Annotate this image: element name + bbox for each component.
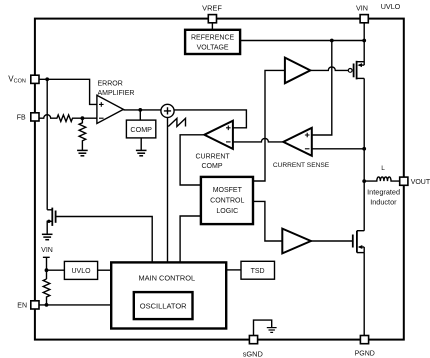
wire current comp output to mosfet control logic [180,135,204,185]
wire VREF stub to reference box [211,22,213,30]
transistor pmos high side [348,41,364,80]
resistor EN pull [43,279,50,305]
wire FB line with hop and series resistor [39,115,97,122]
uvlo box [64,261,97,279]
svg-text:TSD: TSD [251,268,265,275]
wire comp box to ground [140,138,142,151]
svg-text:sGND: sGND [243,349,263,358]
wire nmos source to pgnd [363,253,365,336]
wire VCON down to discharge fet [46,79,48,210]
wire uvlo box to main control [98,269,112,271]
svg-text:UVLO: UVLO [71,268,91,275]
svg-text:ERROR: ERROR [98,80,123,87]
svg-text:VIN: VIN [41,247,53,254]
node VIN rail junction [362,39,366,43]
oscillator box [134,292,193,319]
buffer upper gate driver [285,58,310,84]
svg-text:REFERENCE: REFERENCE [191,35,235,42]
svg-text:MAIN CONTROL: MAIN CONTROL [138,273,195,282]
wire sgnd to ground symbol [254,320,272,335]
wire discharge fet gate to main control [56,217,153,263]
svg-text:MOSFET: MOSFET [213,187,243,194]
comp box C1 [126,120,155,138]
node FB divider junction [81,116,85,120]
wire uvlo junction to uvlo box [47,269,65,271]
svg-text:Inductor: Inductor [370,197,397,206]
wire main control to tsd [226,269,241,271]
inductor L coil [364,177,400,181]
wire VCON to error amp plus [39,79,97,104]
wire current sense plus drop [312,41,332,136]
ground discharge fet [42,234,53,239]
tsd box [241,261,275,279]
wire summing output to current comp plus [174,110,246,128]
node uvlo junction [45,268,49,272]
resistor FB divider lower [79,118,86,150]
svg-text:COMP: COMP [130,125,152,134]
wire current sense minus to switch node [312,148,364,150]
node current sense supply tap [330,39,334,43]
svg-text:OSCILLATOR: OSCILLATOR [140,302,187,311]
op-amp error amplifier [97,95,124,123]
mosfet control logic box [201,177,253,224]
wire upper driver to pmos gate with hop [310,67,348,71]
transistor nmos low side [353,231,364,253]
supply stub VIN internal [43,257,50,279]
ground comp box [136,150,147,155]
chip outline border [35,19,404,340]
wire switch node pmos drain down [363,78,365,230]
svg-text:VCON: VCON [8,74,26,84]
wire lower driver to nmos gate [311,240,353,242]
pin PGND [360,336,368,344]
pin SGND [249,336,257,344]
wire mcl to upper gate driver [253,70,285,181]
svg-text:Integrated: Integrated [367,188,400,197]
svg-text:VOUT: VOUT [411,179,430,186]
wire mcl to lower gate driver [253,201,282,241]
node EN junction [45,303,49,307]
svg-text:EN: EN [17,303,27,310]
reference voltage box [185,30,240,54]
svg-text:AMPLIFIER: AMPLIFIER [98,90,135,97]
svg-text:UVLO: UVLO [381,2,401,11]
svg-text:VREF: VREF [202,4,222,13]
pin FB [31,113,39,121]
pin VCON [31,75,39,83]
node comp tap [138,108,142,112]
wire comp tap drop [139,110,141,120]
wire ramp line to main control [167,118,169,263]
summing junction [161,104,174,117]
svg-text:LOGIC: LOGIC [216,208,238,215]
node VCON junction [45,77,49,81]
amplifier current sense [283,128,312,156]
svg-text:VOLTAGE: VOLTAGE [197,44,229,51]
pin VREF [208,15,216,23]
svg-text:VIN: VIN [356,4,368,13]
node switch sense tap [362,147,366,151]
wire error amp output to summing circle [123,109,160,111]
buffer lower gate driver [282,229,311,254]
ground FB divider [77,150,88,155]
wire mosfet control logic to main control [180,216,201,262]
wire VIN pin drop [363,22,365,41]
ground sgnd [267,328,277,333]
pin VIN [360,15,368,23]
pin VOUT [400,177,408,185]
pin EN [31,301,39,309]
svg-text:CURRENT SENSE: CURRENT SENSE [273,162,330,169]
sawtooth ramp symbol [168,118,185,126]
transistor vcon discharge fet [47,208,55,234]
wire current comp minus with hop to current sense output [233,138,283,141]
svg-text:L: L [381,165,385,172]
comparator current comp [204,121,233,149]
svg-text:CONTROL: CONTROL [210,198,244,205]
wire EN to main control [39,304,111,306]
wire VIN rail from reference box to VIN pin drop [240,40,364,42]
main control box [111,262,226,328]
svg-text:COMP: COMP [202,163,223,170]
svg-text:FB: FB [17,115,26,122]
node inductor tap [362,179,366,183]
svg-text:CURRENT: CURRENT [195,154,230,161]
svg-text:PGND: PGND [355,351,375,358]
